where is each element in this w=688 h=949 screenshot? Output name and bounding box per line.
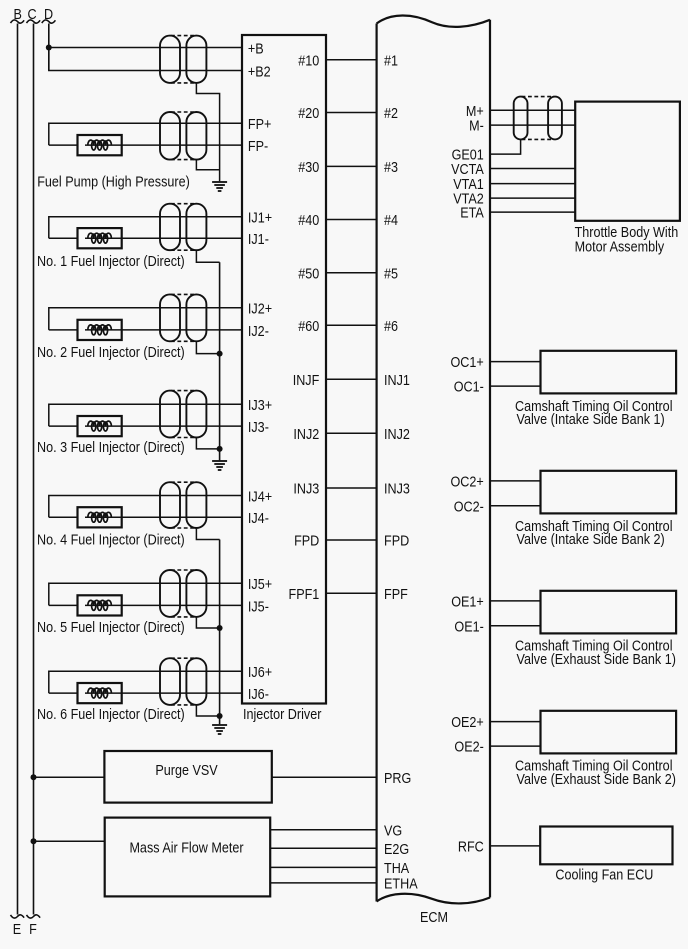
svg-text:No. 2 Fuel Injector (Direct): No. 2 Fuel Injector (Direct) [37,345,185,361]
pin label #40 (driver) [298,213,319,229]
pin label PRG [384,771,411,787]
svg-text:FPD: FPD [294,534,319,550]
wire IJ2- left [49,329,78,331]
pin label OE1- [454,619,484,635]
shield drain IJ2 [196,341,219,353]
svg-text:FPD: FPD [384,534,409,550]
wire M+ [490,109,575,111]
wire IJ4- through injector [85,516,242,518]
injector 1 component box [78,228,122,248]
pin label OC1+ [451,355,484,371]
svg-text:#2: #2 [384,106,398,122]
pin label FPD (driver) [294,534,319,550]
svg-text:THA: THA [384,861,410,877]
svg-text:D: D [44,7,53,23]
svg-text:+B: +B [248,41,264,57]
svg-text:INJ3: INJ3 [293,482,319,498]
svg-text:B: B [14,7,22,23]
wire IJ1+ [49,217,242,238]
fuel pump component box [78,135,122,155]
pin label #50 (driver) [298,266,319,282]
label Throttle Body With [575,225,679,241]
wire rail-to-MAF [34,840,105,842]
pin label VTA2 [453,192,484,208]
label Fuel Pump (High Pressure) [37,174,190,190]
shield drain IJ5 [196,617,219,628]
node D (rail) [42,20,56,71]
svg-text:Purge VSV: Purge VSV [155,763,218,779]
svg-text:INJF: INJF [293,373,320,389]
pin label INJ1 (ECM) [384,373,410,389]
ground G2 [212,461,227,470]
shield drain IJ4 [196,528,219,540]
label E [13,922,21,938]
label Purge VSV [155,763,218,779]
svg-text:Motor Assembly: Motor Assembly [575,239,665,255]
pin label M+ [466,104,484,120]
injector 4 component box [78,507,122,527]
pin label IJ2+ [248,302,272,318]
shield drain IJ3 [196,438,219,449]
wire #40-#4 [326,219,377,221]
wire #20-#2 [326,112,377,114]
svg-text:OC1+: OC1+ [451,355,484,371]
shielded pair IJ1 [160,204,206,251]
shielded pair IJ6 [160,658,206,705]
wire RFC [490,845,540,847]
wire VTA1 [490,183,575,185]
svg-text:#30: #30 [298,160,319,176]
shielded pair IJ3 [160,391,206,438]
mass air flow meter box [105,818,271,897]
pin label INJ2 (driver) [293,427,319,443]
pin label IJ6- [248,687,269,703]
svg-text:ECM: ECM [420,910,448,926]
svg-text:OE2+: OE2+ [451,715,484,731]
pin label IJ4+ [248,489,272,505]
label ECM [420,910,448,926]
pin label #2 (ECM) [384,106,398,122]
injector 2 coil L2 [88,325,112,335]
pin label VG [384,823,402,839]
wire OC2- [490,505,541,507]
label D [44,7,53,23]
pin label IJ6+ [248,665,272,681]
shielded pair IJ5 [160,570,206,617]
svg-text:IJ4-: IJ4- [248,511,269,527]
injector 5 component box [78,595,122,615]
svg-text:#60: #60 [298,319,319,335]
pin label THA [384,861,410,877]
pin label #30 (driver) [298,160,319,176]
svg-text:FP+: FP+ [248,117,272,133]
pin label IJ3- [248,420,269,436]
pin label ETHA [384,877,418,893]
svg-text:#4: #4 [384,213,398,229]
label Valve (Exhaust Side Bank 1) [517,652,676,668]
pin label IJ5+ [248,577,272,593]
svg-text:INJ3: INJ3 [384,482,410,498]
svg-text:FPF: FPF [384,587,408,603]
pin label INJ2 (ECM) [384,427,410,443]
wire IJ6- left [49,692,78,694]
junction dot shield IJ3 [217,446,223,452]
wire FP- through pump [85,144,242,146]
shield bus wire (IJ1-IJ3) [219,262,221,460]
label F [29,922,37,938]
wire IJ3- through injector [85,425,242,427]
pin label IJ4- [248,511,269,527]
pin label IJ5- [248,599,269,615]
wire OC2+ [490,480,541,482]
pin label +B [248,41,264,57]
svg-text:F: F [29,922,37,938]
svg-text:IJ5-: IJ5- [248,599,269,615]
injector 1 coil L1 [88,233,112,243]
pin label #60 (driver) [298,319,319,335]
injector 5 coil L5 [88,600,112,610]
fuel pump coil L-FP [88,140,112,150]
pin label ETA [460,206,484,222]
pin label OC2+ [451,475,484,491]
pin label OC2- [454,499,484,515]
label No. 1 Fuel Injector (Direct) [37,254,185,270]
svg-text:No. 6 Fuel Injector (Direct): No. 6 Fuel Injector (Direct) [37,707,185,723]
shield drain +B pair [196,83,219,181]
junction dot D/+B [46,45,52,51]
ground G3 [212,725,227,734]
svg-text:IJ1+: IJ1+ [248,211,272,227]
wire ETA [490,211,575,213]
wire ETHA [270,882,376,884]
wire FPF1-FPF [326,592,377,594]
wire FP+ [49,123,242,145]
svg-text:Valve (Exhaust Side Bank 2): Valve (Exhaust Side Bank 2) [517,772,676,788]
pin label OE2+ [451,715,484,731]
svg-text:#5: #5 [384,266,398,282]
pin label IJ2- [248,324,269,340]
wire INJ3-INJ3 [326,487,377,489]
label Valve (Intake Side Bank 1) [517,412,665,428]
svg-text:IJ3+: IJ3+ [248,398,272,414]
shielded pair +B/+B2 [160,36,206,83]
injector 6 coil L6 [88,688,112,698]
label Mass Air Flow Meter [129,841,243,857]
svg-text:IJ1-: IJ1- [248,232,269,248]
label Motor Assembly [575,239,665,255]
wire #30-#3 [326,165,377,167]
wire IJ4+ [49,496,242,518]
shield drain IJ6 [196,705,219,716]
wire FP- [49,144,78,146]
shield drain IJ1 [196,250,219,262]
wire IJ2- through injector [85,329,242,331]
pin label #6 (ECM) [384,319,398,335]
svg-text:#10: #10 [298,53,319,69]
label C [27,7,36,23]
svg-text:Injector Driver: Injector Driver [243,707,322,723]
pin label GE01 [452,148,484,164]
shield bus wire (IJ4-IJ6) [219,540,221,725]
cooling fan ECU box [540,827,672,865]
pin label #3 (ECM) [384,160,398,176]
svg-text:IJ3-: IJ3- [248,420,269,436]
pin label VCTA [451,162,484,178]
label Camshaft Timing Oil Control (OE2) [515,759,673,775]
wire VG [270,829,376,831]
pin label RFC [458,840,484,856]
label No. 2 Fuel Injector (Direct) [37,345,185,361]
camshaft valve box OE1 [541,591,677,634]
wire rail-to-Purge VSV [34,776,105,778]
svg-text:OE2-: OE2- [454,740,484,756]
wire IJ5+ [49,583,242,605]
wire OC1+ [490,361,541,363]
throttle body box [575,102,680,221]
svg-text:VCTA: VCTA [451,162,484,178]
svg-text:No. 3 Fuel Injector (Direct): No. 3 Fuel Injector (Direct) [37,440,185,456]
svg-text:No. 1 Fuel Injector (Direct): No. 1 Fuel Injector (Direct) [37,254,185,270]
svg-text:OE1-: OE1- [454,619,484,635]
svg-text:#3: #3 [384,160,398,176]
label Valve (Exhaust Side Bank 2) [517,772,676,788]
wire IJ1- left [49,237,78,239]
svg-text:INJ2: INJ2 [384,427,410,443]
label No. 6 Fuel Injector (Direct) [37,707,185,723]
wire #10-#1 [326,59,377,61]
injector 3 component box [78,416,122,436]
shielded pair IJ4 [160,482,206,528]
junction dot shield IJ2 [217,351,223,357]
svg-text:#1: #1 [384,53,398,69]
pin label E2G [384,842,409,858]
node B (rail) [11,20,25,918]
injector 6 component box [78,683,122,703]
wire IJ5- through injector [85,604,242,606]
pin label OE2- [454,740,484,756]
label Valve (Intake Side Bank 2) [517,532,665,548]
pin label M- [469,119,484,135]
label No. 5 Fuel Injector (Direct) [37,620,185,636]
ground G1 [212,182,227,191]
pin label FPD (ECM) [384,534,409,550]
ECM box [377,15,490,903]
wire INJ2-INJ2 [326,432,377,434]
svg-text:IJ6+: IJ6+ [248,665,272,681]
svg-text:OC2-: OC2- [454,499,484,515]
svg-text:C: C [27,7,36,23]
svg-text:OC1-: OC1- [454,380,484,396]
pin label FP+ [248,117,272,133]
shielded pair M+/M- [514,97,562,140]
wire INJF-INJ1 [326,378,377,380]
junction dot shield IJ5 [217,625,223,631]
pin label #10 (driver) [298,53,319,69]
svg-text:ETA: ETA [460,206,484,222]
svg-text:INJ2: INJ2 [293,427,319,443]
wire VTA2 [490,197,575,199]
pin label IJ1+ [248,211,272,227]
svg-text:M-: M- [469,119,484,135]
camshaft valve box OE2 [541,711,677,754]
junction dot MAF [31,838,37,844]
pin label #1 (ECM) [384,53,398,69]
wire VCTA [490,168,575,170]
svg-text:FP-: FP- [248,139,269,155]
label No. 4 Fuel Injector (Direct) [37,532,185,548]
camshaft valve box OC1 [541,351,677,394]
label No. 3 Fuel Injector (Direct) [37,440,185,456]
svg-text:#50: #50 [298,266,319,282]
svg-text:E: E [13,922,21,938]
wire IJ5- left [49,604,78,606]
label B [14,7,22,23]
svg-text:VG: VG [384,823,402,839]
svg-text:IJ6-: IJ6- [248,687,269,703]
wire #60-#6 [326,324,377,326]
node C (rail) [27,20,41,918]
wire THA [270,866,376,868]
svg-text:Valve (Intake Side Bank 1): Valve (Intake Side Bank 1) [517,412,665,428]
pin label OE1+ [451,595,484,611]
svg-text:No. 4 Fuel Injector (Direct): No. 4 Fuel Injector (Direct) [37,532,185,548]
wire E2G [270,847,376,849]
wire OE2- [490,745,541,747]
wire IJ4- left [49,516,78,518]
wire IJ3+ [49,404,242,426]
svg-text:IJ5+: IJ5+ [248,577,272,593]
pin label IJ3+ [248,398,272,414]
junction dot purge [31,774,37,780]
pin label VTA1 [453,177,484,193]
label Cooling Fan ECU [555,868,653,884]
injector 4 coil L4 [88,512,112,522]
shield drain FP pair [196,160,219,170]
label Camshaft Timing Oil Control (OC2) [515,519,673,535]
pin label FPF1 (driver) [289,587,320,603]
pin label INJ3 (driver) [293,482,319,498]
pin label INJF (driver) [293,373,320,389]
svg-text:#6: #6 [384,319,398,335]
svg-text:IJ4+: IJ4+ [248,489,272,505]
svg-text:Mass Air Flow Meter: Mass Air Flow Meter [129,841,243,857]
pin label +B2 [248,65,271,81]
pin label FPF (ECM) [384,587,408,603]
pin label OC1- [454,380,484,396]
svg-text:M+: M+ [466,104,484,120]
wire PRG [272,776,377,778]
wire +B2 [49,48,242,71]
svg-text:No. 5 Fuel Injector (Direct): No. 5 Fuel Injector (Direct) [37,620,185,636]
camshaft valve box OC2 [541,471,677,514]
label Injector Driver [243,707,322,723]
wire FPD-FPD [326,539,377,541]
svg-text:Valve (Exhaust Side Bank 1): Valve (Exhaust Side Bank 1) [517,652,676,668]
pin label IJ1- [248,232,269,248]
svg-text:Fuel Pump (High Pressure): Fuel Pump (High Pressure) [37,174,190,190]
wire IJ6- through injector [85,692,242,694]
injector 2 component box [78,320,122,340]
wire M- [490,124,575,126]
svg-text:#20: #20 [298,106,319,122]
pin label INJ3 (ECM) [384,482,410,498]
wire OC1- [490,385,541,387]
wire IJ2+ [49,308,242,330]
svg-text:Cooling Fan ECU: Cooling Fan ECU [555,868,653,884]
label Camshaft Timing Oil Control (OE1) [515,639,673,655]
injector 3 coil L3 [88,421,112,431]
wire GE01 shield drain [490,139,521,154]
pin label #5 (ECM) [384,266,398,282]
pin label #4 (ECM) [384,213,398,229]
svg-text:RFC: RFC [458,840,484,856]
svg-text:OC2+: OC2+ [451,475,484,491]
shielded pair FP [160,112,206,160]
svg-text:OE1+: OE1+ [451,595,484,611]
wire IJ6+ [49,671,242,693]
svg-text:E2G: E2G [384,842,409,858]
wire +B [49,47,242,49]
wire OE1+ [490,600,541,602]
pin label FP- [248,139,269,155]
svg-text:+B2: +B2 [248,65,271,81]
junction dot shield IJ6 [217,713,223,719]
svg-text:INJ1: INJ1 [384,373,410,389]
label Camshaft Timing Oil Control (OC1) [515,399,673,415]
svg-text:Valve (Intake Side Bank 2): Valve (Intake Side Bank 2) [517,532,665,548]
svg-text:FPF1: FPF1 [289,587,320,603]
svg-text:PRG: PRG [384,771,411,787]
svg-text:IJ2+: IJ2+ [248,302,272,318]
svg-text:IJ2-: IJ2- [248,324,269,340]
IC Injector Driver box [242,35,326,704]
svg-text:ETHA: ETHA [384,877,418,893]
pin label #20 (driver) [298,106,319,122]
wire IJ1- through injector [85,237,242,239]
purge VSV box [104,751,271,803]
wire IJ3- left [49,425,78,427]
wire OE2+ [490,721,541,723]
wire #50-#5 [326,272,377,274]
wire OE1- [490,625,541,627]
svg-text:#40: #40 [298,213,319,229]
shielded pair IJ2 [160,294,206,341]
